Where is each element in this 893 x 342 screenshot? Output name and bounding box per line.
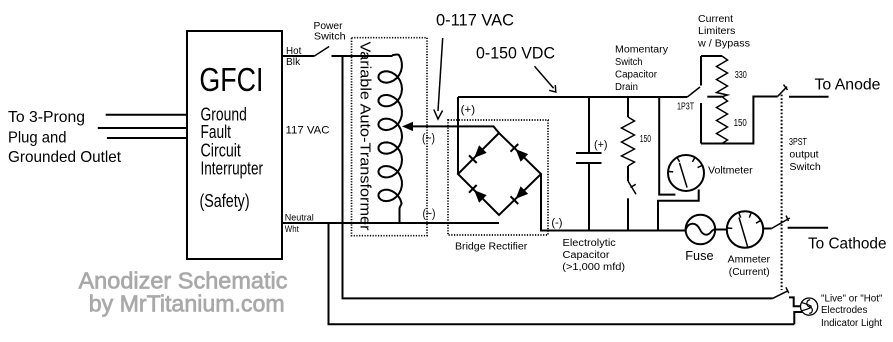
voltmeter ticks [669,158,702,172]
wire limiter top [701,55,722,57]
wire neutral from GFCI to bridge [282,222,499,224]
wiper wire [411,126,499,133]
lamp DS1 outer circle [801,298,818,315]
svg-text:150: 150 [734,118,748,129]
svg-text:Wht: Wht [285,224,299,234]
svg-text:(~): (~) [422,133,435,145]
svg-text:To 3-Prong: To 3-Prong [8,109,85,126]
wire plug line 1 [106,114,187,116]
arrow 0-150 VDC [535,66,554,88]
capacitor C1 bottom lead [588,163,590,231]
svg-text:117 VAC: 117 VAC [286,125,330,137]
svg-text:To Anode: To Anode [815,77,881,94]
svg-text:Grounded Outlet: Grounded Outlet [8,149,122,166]
wire hot from GFCI [282,55,314,57]
svg-text:To Cathode: To Cathode [808,235,887,252]
voltmeter needle [680,163,688,188]
svg-text:0-150 VDC: 0-150 VDC [476,44,555,62]
svg-text:3PST: 3PST [789,137,807,148]
diode D3 bottom-left [469,185,487,203]
fuse sine [686,224,715,235]
wire throw middle stub [707,96,722,98]
svg-text:Drain: Drain [615,82,638,93]
anode switch S4 lever [778,85,788,97]
ammeter ticks [727,213,760,229]
svg-text:150: 150 [640,134,652,145]
fuse F1 circle [686,215,716,245]
svg-text:Switch: Switch [789,162,820,173]
lamp DS1 filament coil [807,300,813,314]
wire drain branch top [627,97,629,117]
wire hot bypass down to indicator switch [343,56,773,298]
svg-text:330: 330 [735,70,747,81]
lamp DS1 filament cone [801,302,812,311]
svg-text:Switch: Switch [615,57,643,68]
wiper arrowhead [402,122,413,131]
wire throw top [700,56,702,86]
svg-text:Capacitor: Capacitor [615,69,658,80]
wire to cathode [788,227,829,229]
svg-text:1P3T: 1P3T [677,101,694,112]
bridge diamond [458,133,541,215]
svg-text:Blk: Blk [286,57,301,68]
svg-text:Fuse: Fuse [685,248,713,263]
svg-text:w / Bypass: w / Bypass [697,39,750,50]
svg-text:(Current): (Current) [729,267,770,278]
svg-text:(Safety): (Safety) [200,190,250,211]
diode D1 top-left [469,145,487,163]
svg-text:Interrupter: Interrupter [201,158,264,179]
svg-text:Capacitor: Capacitor [563,250,611,261]
transformer T1 coil [378,54,402,223]
diode D4 bottom-right [511,186,529,204]
wire fuse to ammeter [715,229,727,231]
wire bridge plus output [457,97,459,174]
wire voltmeter top lead [659,97,675,195]
momentary switch S2 lever [628,181,636,194]
svg-text:Limiters: Limiters [698,26,735,37]
wire limiter bottom and output [701,97,778,144]
wire plug line 2 [98,127,187,129]
wire neutral tap down to indicator lamp [329,223,795,324]
GFCI box U1 [187,31,282,259]
ammeter M2 circle [727,211,763,247]
voltmeter M1 circle [668,155,704,191]
wire resistor to momentary switch [627,166,629,181]
wire ammeter to cathode switch [763,228,772,230]
wire plug line 3 [107,137,187,139]
svg-text:(+): (+) [594,139,608,151]
svg-text:Switch: Switch [314,30,346,42]
diode D2 top-right [511,144,529,162]
cathode switch S5 lever [772,216,790,229]
wire drain contact to rail [627,198,629,230]
wire to anode [789,96,829,98]
svg-text:(>1,000 mfd): (>1,000 mfd) [562,262,625,273]
wire lamp bottom lead [794,312,802,324]
bridge rectifier dotted box [448,120,548,235]
svg-text:output: output [789,150,818,161]
wire throw bottom bypass [700,103,702,144]
wire plus rail [458,96,687,98]
wire lamp top lead [789,297,801,306]
indicator switch S6 lever [773,287,789,298]
svg-text:(-): (-) [551,217,562,229]
svg-text:Indicator Light: Indicator Light [821,318,882,329]
svg-text:Voltmeter: Voltmeter [708,165,753,177]
3PST gang dotted line [781,95,783,290]
svg-text:Variable Auto-Transformer: Variable Auto-Transformer [357,42,374,231]
power switch S1 lever [314,47,329,57]
svg-text:Momentary: Momentary [615,44,668,55]
transformer T1 dotted box [352,38,428,236]
arrow 0-117 VAC [438,38,443,111]
svg-text:Electrolytic: Electrolytic [563,238,616,249]
svg-text:Neutral: Neutral [285,212,314,222]
svg-text:Electrodes: Electrodes [821,305,867,316]
svg-text:GFCI: GFCI [199,61,263,98]
1P3T switch S3 lever [687,87,700,97]
resistor R2 330 [717,56,728,97]
ammeter needle [739,218,748,248]
svg-text:"Live" or "Hot": "Live" or "Hot" [821,294,883,305]
svg-text:by MrTitanium.com: by MrTitanium.com [89,291,285,317]
wire bridge minus output [541,174,686,231]
capacitor C1 top lead [588,97,590,153]
wire voltmeter return [658,190,699,231]
resistor R3 150 [717,97,728,144]
svg-text:Current: Current [698,14,733,25]
svg-text:(~): (~) [423,209,436,221]
svg-text:Ammeter: Ammeter [728,254,771,265]
svg-text:Anodizer Schematic: Anodizer Schematic [79,268,288,294]
svg-text:Bridge Rectifier: Bridge Rectifier [455,241,528,253]
wire hot to transformer coil [332,55,393,57]
resistor R1 150 drain [622,117,635,166]
svg-text:(+): (+) [461,104,475,116]
svg-text:0-117 VAC: 0-117 VAC [436,12,514,30]
capacitor C1 plates [576,153,602,163]
svg-text:Plug and: Plug and [8,130,67,147]
